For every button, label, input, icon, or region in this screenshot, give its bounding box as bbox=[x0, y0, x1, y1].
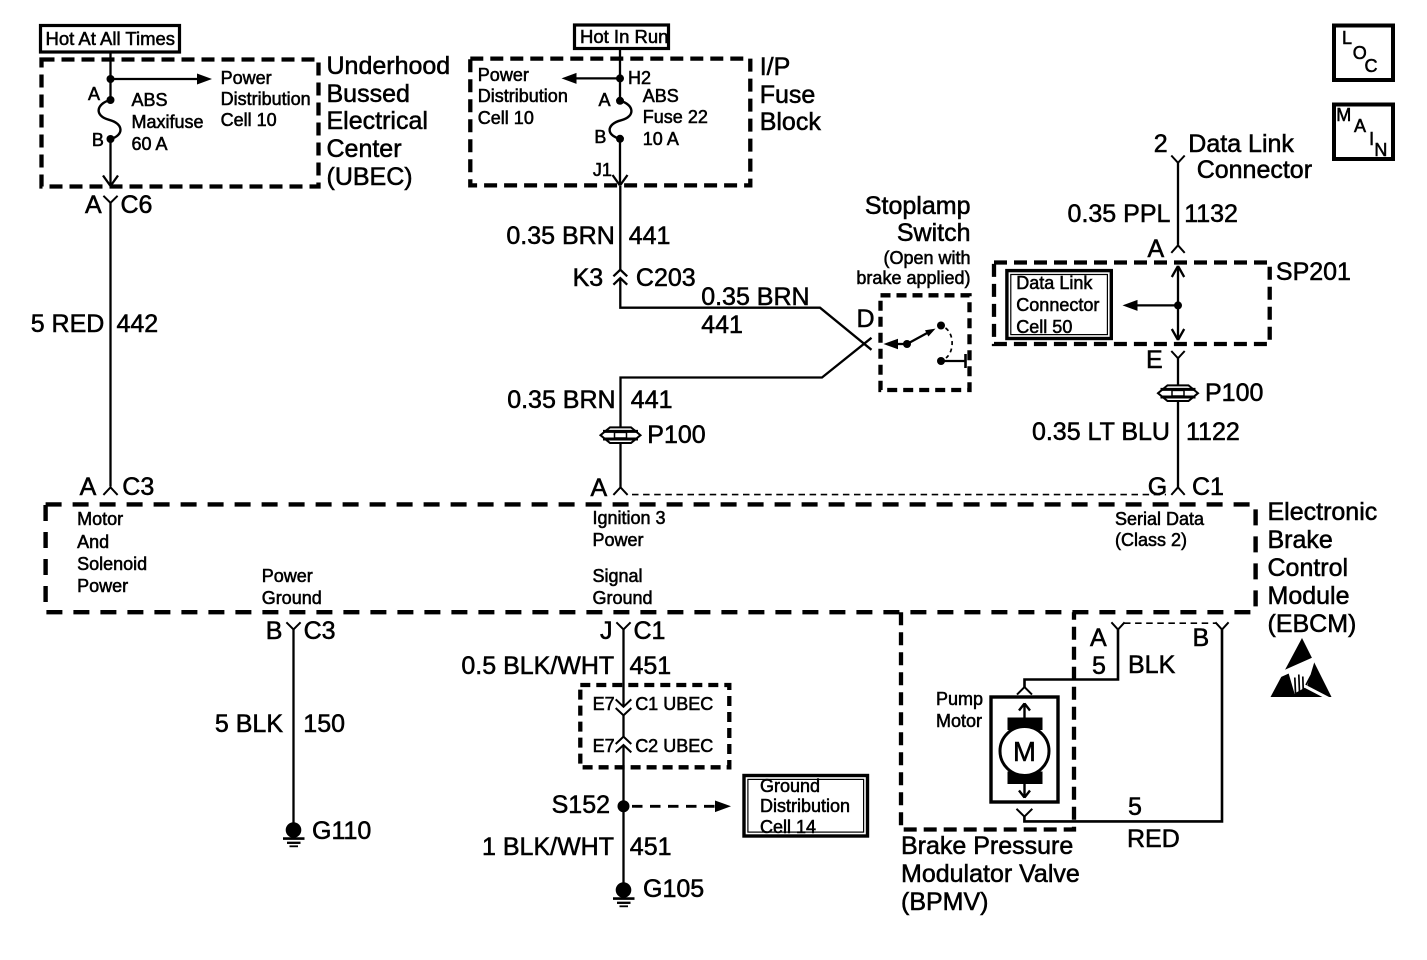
label: Motor And Solenoid Power bbox=[77, 508, 147, 598]
pin label A (EBCM ignition) bbox=[591, 474, 608, 502]
ground label G110 bbox=[312, 817, 371, 845]
pin label G (EBCM) bbox=[1148, 473, 1167, 501]
label: LOC letters bbox=[1342, 28, 1352, 50]
wire label: 441 (upper) bbox=[629, 222, 671, 250]
ground G105 bbox=[613, 882, 635, 906]
wire: 0.35 LT BLU 1122 bbox=[1177, 401, 1179, 487]
pin label H2 bbox=[628, 68, 651, 90]
pin label A (maxifuse) bbox=[88, 84, 100, 106]
wire: Hot At All Times feed into UBEC bbox=[109, 53, 111, 100]
value label: ABS Fuse 22 10 A bbox=[643, 86, 708, 151]
wire label: 1122 bbox=[1186, 418, 1240, 446]
fuse: ABS Fuse 22 10 A (S-curve) bbox=[610, 101, 632, 139]
label: SP201 bbox=[1276, 258, 1351, 286]
connector: Data Link Connector pin 2 (Y symbol) bbox=[1171, 156, 1184, 163]
fuse: ABS Maxifuse 60 A (S-curve) bbox=[99, 100, 121, 139]
label: Signal Ground bbox=[593, 566, 653, 609]
pin label A (fuse 22) bbox=[599, 90, 611, 112]
wire label: 5 RED bbox=[31, 310, 105, 338]
wire: serial data internal dashed link A to G bbox=[632, 494, 1166, 496]
connector C1 pin G at EBCM (inverted Y) bbox=[1171, 487, 1184, 495]
pin label B (fuse 22) bbox=[594, 127, 606, 149]
wire label: 441 (to switch) bbox=[701, 311, 743, 339]
label: MAIN letters bbox=[1336, 105, 1351, 127]
wire: arrow to Power Distribution Cell 10 bbox=[111, 74, 213, 85]
node: fuse terminal A dot bbox=[107, 96, 115, 104]
symbol: ESD sensitive device (triangle with hand) bbox=[1268, 638, 1332, 700]
pin label A (EBCM motor power) bbox=[80, 473, 97, 501]
box: Underhood Bussed Electrical Center (UBEC) dashed bbox=[42, 60, 319, 187]
pin label K3 bbox=[573, 264, 604, 292]
label: Pump Motor bbox=[936, 689, 983, 732]
pin label B (maxifuse) bbox=[92, 130, 104, 152]
pin label E7 (C1 UBEC) bbox=[593, 694, 615, 716]
box: Stoplamp Switch dashed bbox=[881, 295, 970, 390]
connector: pump motor bottom chevron bbox=[1017, 809, 1033, 817]
box: splice pack SP201 dashed bbox=[994, 263, 1270, 345]
wire: link C1 UBEC to C2 UBEC bbox=[622, 715, 624, 737]
connector label C2 UBEC bbox=[635, 736, 713, 758]
wire label: 5 (RED) bbox=[1128, 793, 1142, 821]
label: Hot In Run bbox=[580, 26, 668, 48]
connector SP201 pin A (inverted Y) bbox=[1171, 245, 1184, 253]
connector label C1 (EBCM J) bbox=[634, 617, 666, 645]
wire label: 0.35 BRN (to switch) bbox=[701, 283, 809, 311]
wire label: 442 bbox=[117, 310, 159, 338]
box: Hot At All Times header bbox=[41, 26, 180, 53]
pin label J (EBCM signal ground) bbox=[600, 617, 613, 645]
wire: switch input arrow (left-pointing) bbox=[884, 339, 908, 350]
wire label: RED bbox=[1127, 825, 1180, 853]
pin label B (EBCM power ground) bbox=[266, 617, 283, 645]
wire label: 0.5 BLK/WHT bbox=[461, 652, 614, 680]
node: fuse feed dot H2 bbox=[616, 74, 624, 82]
wire: dashed arrow to Ground Distribution Cell 14 bbox=[632, 801, 731, 813]
label: Hot At All Times bbox=[46, 28, 176, 50]
connector C3 pin B at EBCM bottom (Y symbol) bbox=[286, 622, 300, 629]
splice label P100 (BRN) bbox=[647, 421, 705, 449]
box: LOC reference bbox=[1334, 26, 1393, 81]
connector: EBCM pin A (Y symbol) bbox=[1111, 622, 1124, 629]
ground G110 bbox=[283, 822, 305, 846]
label: Power Distribution Cell 10 (I/P) bbox=[478, 65, 568, 130]
connector C3 pin A at EBCM (inverted Y) bbox=[103, 487, 117, 495]
label: Ground Distribution Cell 14 bbox=[760, 776, 850, 838]
wire: arrow to Power Distribution Cell 10 (I/P) bbox=[562, 73, 621, 84]
pin label A (SP201) bbox=[1148, 235, 1165, 263]
wire: 0.35 PPL 1132 bbox=[1177, 163, 1179, 245]
connector C2 UBEC pin E7 (double chevron up) bbox=[616, 737, 632, 753]
pin label A (pump motor feed) bbox=[1090, 624, 1107, 652]
pin label E (SP201) bbox=[1146, 346, 1163, 374]
ground label G105 bbox=[643, 875, 704, 903]
motor letter M bbox=[1012, 738, 1037, 766]
label: EBCM module name bbox=[1268, 498, 1378, 638]
switch: movable contact arm with arrowhead bbox=[903, 329, 936, 348]
connector label C203 bbox=[636, 264, 696, 292]
splice P100 (inline grommet, LT BLU wire) bbox=[1158, 385, 1198, 401]
wire label: 1132 bbox=[1184, 200, 1238, 228]
box: Brake Pressure Modulator Valve (BPMV) dashed, three sides bbox=[901, 612, 1074, 829]
wire label: BLK bbox=[1128, 651, 1175, 679]
value label: ABS Maxifuse 60 A bbox=[132, 90, 204, 155]
pump motor M bbox=[991, 697, 1058, 802]
wire: Hot In Run feed into I/P fuse block bbox=[619, 49, 621, 101]
wire label: 0.35 BRN (upper) bbox=[506, 222, 614, 250]
label: Power Distribution Cell 10 (UBEC) bbox=[221, 68, 311, 131]
label: Ignition 3 Power bbox=[593, 508, 666, 552]
box: Data Link Connector Cell 50 (double border) bbox=[1007, 271, 1111, 339]
pin label B (pump motor return) bbox=[1193, 624, 1210, 652]
wire label: 451 (lower) bbox=[630, 833, 672, 861]
splice label P100 (LT BLU) bbox=[1205, 379, 1263, 407]
node: fuse terminal A dot (I/P) bbox=[616, 97, 624, 105]
connector label C3 (EBCM B) bbox=[304, 617, 336, 645]
label: Data Link Connector Cell 50 bbox=[1016, 272, 1099, 339]
wire: E to P100 bbox=[1177, 358, 1179, 385]
wire: 0.35 BRN 441 from C203 to stoplamp switch bbox=[620, 278, 871, 350]
connector SP201 pin E (Y symbol) bbox=[1171, 351, 1184, 358]
label: Stoplamp Switch bbox=[865, 193, 971, 247]
box: MAIN reference bbox=[1334, 105, 1393, 160]
wire: 5 BLK pump motor feed bbox=[1025, 630, 1119, 688]
label: UBEC module name bbox=[327, 53, 451, 191]
connector label C1 (EBCM G) bbox=[1192, 473, 1224, 501]
wire: SP201 bus with up/down arrows bbox=[1172, 266, 1184, 340]
wire label: 441 (from switch) bbox=[631, 386, 673, 414]
label: Power Ground bbox=[262, 566, 322, 609]
wire: fuse 22 output down-arrow J1 bbox=[613, 139, 628, 186]
node: SP201 junction dot bbox=[1174, 301, 1182, 309]
connector label C3 (EBCM A) bbox=[122, 473, 154, 501]
wire label: 5 BLK bbox=[215, 710, 283, 738]
label: Data Link Connector component bbox=[1188, 130, 1294, 158]
switch: upper fixed contact dot bbox=[937, 322, 945, 330]
wire label: 451 (upper) bbox=[630, 652, 672, 680]
wire: 5 BLK 150 bbox=[292, 630, 294, 824]
pin label D (stoplamp switch) bbox=[857, 305, 875, 333]
wire: 0.35 BRN 441 from stoplamp switch to P100 bbox=[621, 338, 872, 427]
label: Serial Data (Class 2) bbox=[1115, 509, 1204, 552]
wire: 0.5 BLK/WHT 451 bbox=[622, 630, 624, 707]
wire label: 0.35 PPL bbox=[1068, 200, 1171, 228]
wire: 0.35 BRN 441 from J1 to C203 bbox=[619, 186, 621, 270]
connector: pump motor top chevron bbox=[1017, 687, 1032, 695]
box: Electronic Brake Control Module (EBCM) dashed bbox=[46, 504, 1256, 612]
wire: arrow to Data Link Connector Cell 50 bbox=[1123, 300, 1179, 311]
connector C1 UBEC pin E7 (double chevron down) bbox=[616, 699, 632, 715]
label: (Open with brake applied) bbox=[856, 248, 970, 290]
splice S152 bbox=[618, 800, 630, 812]
connector: EBCM pin B (Y symbol) bbox=[1215, 622, 1228, 629]
wire: ignition 3 power into EBCM pin A bbox=[619, 443, 621, 487]
pin label 2 (Data Link Connector) bbox=[1154, 130, 1168, 158]
box: UBEC pass-through dashed (E7 connectors) bbox=[580, 685, 729, 767]
wire label: 0.35 BRN (from switch) bbox=[507, 386, 615, 414]
wire: 5 RED 442 bbox=[109, 203, 111, 487]
connector C1 pin J at EBCM bottom (Y symbol) bbox=[616, 622, 630, 629]
wire label: 150 bbox=[303, 710, 345, 738]
wire: 5 RED pump motor return to pin B bbox=[1024, 630, 1222, 822]
node: fuse terminal B dot (I/P) bbox=[616, 135, 624, 143]
pin label E7 (C2 UBEC) bbox=[593, 736, 615, 758]
connector C2 pin A at EBCM top (inverted Y) bbox=[613, 487, 627, 495]
wire: fuse output down-arrow to UBEC edge bbox=[103, 139, 118, 186]
wire: 1 BLK/WHT 451 to G105 bbox=[622, 745, 624, 883]
node: fuse terminal B dot bbox=[107, 135, 115, 143]
splice P100 (inline grommet, BRN wire) bbox=[601, 427, 641, 443]
wire label: 0.35 LT BLU bbox=[1032, 418, 1170, 446]
wire: EBCM internal dashed link A to B (pump motor) bbox=[1124, 622, 1216, 624]
connector C203 (double chevron) bbox=[613, 270, 627, 285]
connector C6 (Y symbol) bbox=[103, 196, 117, 203]
switch: travel arc (dashed) bbox=[946, 328, 953, 358]
box: I/P Fuse Block dashed bbox=[470, 59, 750, 186]
label: I/P Fuse Block bbox=[760, 54, 821, 137]
connector label C6 bbox=[121, 191, 153, 219]
connector label C1 UBEC bbox=[635, 694, 713, 716]
box: Ground Distribution Cell 14 (double border) bbox=[744, 776, 868, 837]
switch: lower fixed contact dot and terminal bbox=[937, 354, 966, 368]
node: junction dot in UBEC bbox=[107, 75, 115, 83]
pin label A / connector C6 bbox=[85, 191, 102, 219]
label: BPMV module name bbox=[901, 832, 1080, 916]
wire label: 1 BLK/WHT bbox=[482, 833, 614, 861]
pin label J1 bbox=[593, 160, 612, 182]
splice label S152 bbox=[552, 791, 610, 819]
wire label: 5 (BLK) bbox=[1092, 652, 1106, 680]
box: Hot In Run header bbox=[575, 25, 669, 49]
